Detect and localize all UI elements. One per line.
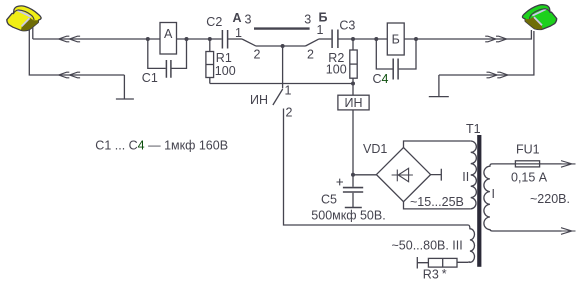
- diode inside VD1: [392, 168, 413, 181]
- wire node to rectifier: [353, 174, 376, 176]
- wire VD1 bottom to winding II: [404, 202, 471, 209]
- node: R2/C3 junction: [351, 37, 355, 41]
- telephone icon left (yellow): [7, 6, 41, 31]
- dial pulse contact ИН: lower lead (contact 2) to bottom rail: [284, 109, 469, 226]
- svg-text:~220В.: ~220В.: [530, 192, 570, 206]
- svg-text:*: *: [442, 267, 447, 281]
- winding III: [457, 225, 475, 262]
- svg-text:2: 2: [254, 48, 261, 62]
- svg-text:1: 1: [285, 84, 292, 98]
- svg-text:~50...80В. III: ~50...80В. III: [392, 239, 463, 253]
- svg-text:1: 1: [235, 26, 242, 40]
- capacitor C2: [222, 30, 227, 49]
- svg-text:Б: Б: [319, 11, 328, 25]
- resistor R3: [417, 257, 457, 269]
- svg-text:0,15 А: 0,15 А: [511, 171, 548, 185]
- svg-text:VD1: VD1: [363, 142, 387, 156]
- arrows on bottom-right wire: [487, 72, 509, 78]
- svg-text:500мкф 50В.: 500мкф 50В.: [311, 209, 385, 223]
- wire C3 to Б block and right phone: [338, 30, 532, 39]
- output arrow bottom (to mains): [561, 228, 576, 235]
- svg-text:С5: С5: [321, 193, 337, 207]
- block ИН (dial): [338, 95, 369, 110]
- ganged switch link bar: [254, 27, 310, 29]
- block A (unit А): [160, 23, 177, 55]
- transformer core: [477, 135, 481, 267]
- winding I: [484, 164, 562, 231]
- svg-text:Т1: Т1: [466, 122, 481, 136]
- node: dial contact junction: [281, 44, 285, 48]
- capacitor C4: [376, 39, 416, 69]
- wire: top line from phone to C2: [33, 38, 222, 40]
- rail wire R1 bottom to R2 bottom: [210, 83, 353, 85]
- node: C5 / rectifier junction: [351, 173, 355, 177]
- wire ИН block to rectifier node: [352, 110, 354, 175]
- svg-text:R3: R3: [423, 268, 439, 282]
- resistor R2: [352, 39, 354, 95]
- block Б (unit Б): [387, 23, 404, 55]
- svg-text:C2: C2: [206, 15, 222, 29]
- wire VD1 top to winding II: [404, 141, 471, 148]
- svg-text:2: 2: [286, 106, 293, 120]
- switch contact А: arm 1-2: [242, 39, 256, 46]
- node: A block right junction: [185, 37, 189, 41]
- dial pulse contact ИН: switch arm: [273, 89, 283, 105]
- svg-text:ИН: ИН: [250, 93, 268, 107]
- VD1 output terminal bar: [431, 169, 442, 181]
- svg-text:II: II: [462, 170, 469, 184]
- wire C2 to contact 1: [228, 38, 242, 40]
- resistor R1: [209, 39, 211, 84]
- svg-text:~15...25В: ~15...25В: [410, 195, 464, 209]
- node: R2 bottom junction: [351, 82, 355, 86]
- fuse FU1: [515, 161, 539, 167]
- wire: left phone top lead: [32, 27, 34, 39]
- svg-text:3: 3: [245, 13, 252, 27]
- wire: middle segment between switch halves: [256, 45, 306, 47]
- svg-text:А: А: [164, 27, 173, 41]
- winding II: [471, 141, 477, 209]
- svg-text:2: 2: [307, 48, 314, 62]
- svg-text:1: 1: [317, 23, 324, 37]
- wire: left phone bottom lead: [29, 29, 124, 75]
- svg-text:R1: R1: [216, 51, 232, 65]
- ground (right earth): [429, 75, 449, 97]
- svg-text:3: 3: [304, 13, 311, 27]
- node: R1/C2 junction: [208, 37, 212, 41]
- ground (left earth): [116, 75, 134, 99]
- svg-text:С4: С4: [373, 72, 389, 86]
- wire contact to C3: [319, 38, 332, 40]
- svg-text:А: А: [232, 11, 241, 25]
- svg-text:FU1: FU1: [516, 143, 540, 157]
- capacitor C3: [332, 30, 338, 49]
- node: A block left junction: [146, 37, 150, 41]
- svg-text:С1 ... С4 — 1мкф 160В: С1 ... С4 — 1мкф 160В: [95, 139, 228, 153]
- svg-text:ИН: ИН: [344, 96, 362, 110]
- svg-text:I: I: [491, 187, 494, 201]
- wire: right phone bottom lead: [439, 31, 534, 75]
- node: Б block right junction: [414, 37, 418, 41]
- arrows on bottom-left wire: [59, 72, 81, 78]
- svg-text:Б: Б: [392, 33, 400, 47]
- capacitor C1: [148, 39, 187, 68]
- node: Б block left junction: [374, 37, 378, 41]
- arrows on top-right wire: [485, 36, 507, 42]
- arrows on top-left wire: [59, 36, 81, 42]
- dial pulse contact ИН: upper lead (contact 1): [282, 46, 284, 88]
- svg-text:100: 100: [326, 63, 347, 77]
- svg-text:100: 100: [215, 64, 236, 78]
- telephone icon right (green): [522, 5, 556, 30]
- svg-text:С1: С1: [142, 71, 158, 85]
- capacitor C5 (electrolytic): [352, 175, 354, 187]
- output arrow top (to mains): [561, 161, 576, 168]
- switch contact Б: arm 2-1: [306, 39, 319, 46]
- svg-text:С3: С3: [339, 19, 355, 33]
- bridge rectifier VD1: [376, 148, 430, 202]
